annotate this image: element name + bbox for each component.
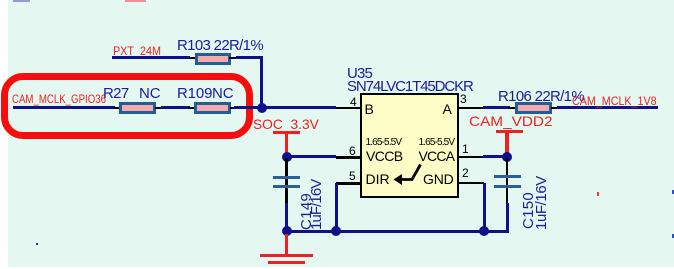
label U35 (347, 66, 372, 81)
resistor R103 (0, 0, 1, 1)
pin name GND (423, 172, 454, 186)
wire PXT_24M to R103 (112, 56, 190, 59)
pin 6 number (349, 145, 356, 157)
pin 1 number (462, 143, 469, 155)
stray blue mark right edge lower (672, 234, 674, 238)
pin 3 lead (458, 107, 483, 110)
label R103 22R/1% (177, 38, 263, 53)
truncated text fragment top-left (blue) (13, 0, 30, 2)
label R27 NC (0, 0, 1, 1)
junction node A (257, 103, 267, 113)
junction node C (gnd left) (282, 226, 292, 236)
power symbol SOC_3.3V (0, 0, 1, 1)
pin 2 lead (458, 182, 484, 185)
wire CAM_MCLK_GPIO36 to R27 (13, 106, 115, 109)
junction node B (3.3V) (282, 152, 292, 162)
pin 2 number (462, 167, 469, 179)
stray dot (36, 243, 38, 245)
wire GND net (bottom horizontal) (286, 230, 509, 233)
junction node D (VDD2) (502, 152, 512, 162)
capacitor C149 (0, 0, 1, 1)
net label CAM_MCLK_GPIO36 (12, 93, 106, 105)
wire R109 to node A (234, 106, 262, 109)
label SN74LVC1T45DCKR (347, 79, 473, 94)
wire C150 to GND net (506, 203, 509, 233)
pin name VCCB (366, 149, 403, 163)
pin name B (365, 102, 374, 116)
DIR direction arrow (390, 160, 426, 188)
pin 5 lead (336, 182, 360, 185)
highlight annotation oval (1, 73, 253, 139)
pin name VCCA (419, 149, 455, 163)
resistor R109 (0, 0, 1, 1)
pin 4 number (350, 96, 357, 108)
pin 4 lead (336, 107, 360, 110)
wire R106 to CAM_MCLK_1V8 (557, 106, 658, 109)
resistor R106 (0, 0, 1, 1)
truncated text fragment top-center (red) (125, 0, 146, 2)
label R109 NC (0, 0, 1, 1)
stray blue mark right edge upper (672, 190, 674, 194)
U35 body (360, 93, 459, 198)
wire U35 pin 1 to node D (483, 155, 507, 158)
IC U35 SN74LVC1T45DCKR (0, 0, 1, 1)
wire R103 to node A (0, 0, 1, 1)
power symbol CAM_VDD2 (0, 0, 1, 1)
resistor R27 (0, 0, 1, 1)
pin 5 number (349, 170, 356, 182)
junction node GND right (479, 226, 489, 236)
stray red mark (597, 192, 599, 196)
voltage note right 1.65-5.5V (419, 138, 455, 148)
wire U35 pin 2 to GND net (483, 183, 486, 231)
pin 3 number (460, 93, 467, 105)
label C149 1uF/16V (0, 0, 1, 1)
wire U35 pin 3 to R106 (483, 106, 510, 109)
wire node A to U35 pin 4 (262, 106, 336, 109)
capacitor C150 (0, 0, 1, 1)
pin name A (443, 102, 452, 116)
wire U35 pin 5 to GND net (335, 183, 338, 231)
ground symbol (0, 0, 1, 1)
junction node DIR/GND net (331, 226, 341, 236)
net label CAM_MCLK_1V8 (572, 95, 657, 107)
label C150 1uF/16V (0, 0, 1, 1)
pin 6 lead (336, 156, 360, 159)
voltage note left 1.65-5.5V (366, 138, 402, 148)
wire R27 to R109 (161, 106, 190, 109)
net label PXT_24M (113, 45, 161, 57)
label R106 22R/1% (498, 89, 584, 104)
wire node B to U35 pin 6 (286, 155, 336, 158)
pin 1 lead (458, 156, 483, 159)
pin name DIR (366, 172, 390, 186)
